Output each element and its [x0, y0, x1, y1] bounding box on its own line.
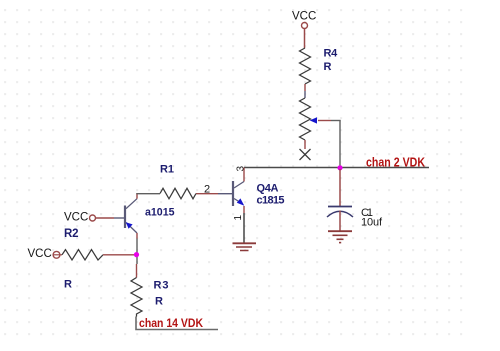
- svg-text:VCC: VCC: [64, 212, 88, 224]
- svg-text:VCC: VCC: [28, 248, 52, 260]
- svg-text:1: 1: [233, 215, 244, 221]
- svg-text:Q4A: Q4A: [257, 183, 279, 195]
- svg-text:R3: R3: [154, 280, 169, 292]
- svg-text:R: R: [324, 61, 332, 73]
- svg-text:a1015: a1015: [145, 207, 175, 219]
- svg-text:R: R: [155, 296, 163, 308]
- svg-text:2: 2: [204, 184, 210, 196]
- svg-text:R: R: [64, 279, 72, 291]
- svg-text:R4: R4: [324, 48, 339, 60]
- svg-text:3: 3: [235, 166, 246, 172]
- svg-text:c1815: c1815: [257, 195, 285, 207]
- svg-text:chan 2 VDK: chan 2 VDK: [366, 156, 425, 170]
- svg-text:R1: R1: [160, 164, 174, 176]
- svg-text:10uf: 10uf: [361, 217, 383, 229]
- svg-text:chan 14 VDK: chan 14 VDK: [139, 316, 203, 330]
- svg-text:R2: R2: [64, 228, 79, 240]
- svg-text:VCC: VCC: [292, 11, 316, 23]
